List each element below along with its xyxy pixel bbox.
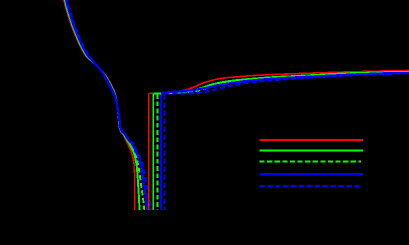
blue solid vertical asymptote <box>160 93 162 209</box>
blue dashed curve, right branch <box>165 73 409 93</box>
legend sample: blue solid line <box>260 173 364 176</box>
legend sample: green solid line <box>260 150 364 152</box>
legend sample: blue dashed line <box>260 185 363 188</box>
green dashed curve, left branch <box>65 0 145 210</box>
red solid curve, right branch <box>149 71 409 94</box>
legend sample: green dashed line <box>260 161 362 163</box>
blue dashed vertical asymptote <box>163 95 165 210</box>
blue solid curve, left branch <box>65 0 147 210</box>
blue dashed curve, left branch <box>66 0 151 210</box>
green solid curve, left branch <box>64 0 140 210</box>
blue solid curve, right branch <box>161 73 409 93</box>
green dashed vertical asymptote <box>156 94 158 210</box>
green solid vertical asymptote <box>152 94 154 210</box>
red solid curve, left branch <box>63 0 135 210</box>
green solid curve, right branch <box>153 72 409 94</box>
green dashed curve, right branch <box>157 72 409 94</box>
red solid vertical asymptote <box>148 93 150 210</box>
legend sample: red solid line <box>260 139 364 141</box>
